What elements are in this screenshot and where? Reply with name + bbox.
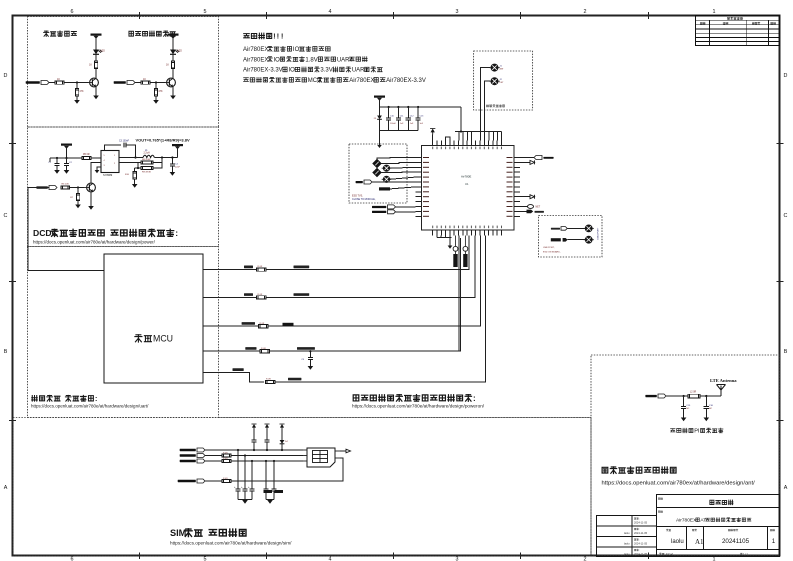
capacitor C2 [66, 158, 68, 163]
wire [76, 96, 78, 100]
svg-text:laolu: laolu [624, 542, 630, 546]
svg-text:SY8089: SY8089 [103, 173, 113, 177]
svg-text:2024-11-05: 2024-11-05 [634, 552, 648, 556]
ground [170, 96, 176, 100]
wire [390, 166, 416, 169]
resistor pull-down [155, 83, 157, 89]
resistor R10 [134, 168, 136, 172]
wire collector [172, 69, 174, 79]
wire [266, 238, 469, 270]
resistor pull-down [76, 83, 78, 89]
svg-text:2: 2 [584, 557, 587, 561]
net label USIM_VDD [180, 448, 205, 452]
svg-text:R 0R: R 0R [260, 323, 265, 325]
wire [379, 141, 381, 145]
svg-text:ESD ON BOARD,: ESD ON BOARD, [543, 250, 561, 253]
resistor R9 [141, 166, 153, 169]
svg-text:2.2uH: 2.2uH [144, 153, 150, 155]
capacitor simc2 [251, 461, 253, 489]
resistor row 1 [257, 268, 267, 271]
svg-text:Air780EX: Air780EX [349, 78, 374, 84]
module left pins [416, 158, 422, 217]
resistor R5 [82, 156, 91, 159]
test point TP1 [489, 64, 499, 71]
power VBUS in [61, 144, 72, 149]
capacitor C3 bootstrap [123, 143, 125, 148]
LED [170, 50, 179, 55]
wire emitter [172, 87, 174, 96]
resistor R [141, 81, 150, 84]
net flag VDD_EXT [534, 156, 554, 160]
net flag USB_DM [551, 228, 560, 230]
svg-text:!: ! [273, 34, 275, 41]
net label NET_LED [26, 81, 49, 85]
svg-text:laolu: laolu [624, 531, 630, 535]
text DCDC guide [33, 228, 178, 238]
net label RF_ANT [645, 394, 666, 398]
wire [64, 82, 88, 84]
wire [381, 162, 415, 163]
resistor R6 [61, 186, 70, 189]
wire [377, 158, 416, 160]
net flag USB_DP [551, 238, 561, 241]
test point TP2 [489, 78, 499, 85]
subcircuit: running status title [129, 31, 175, 36]
text detect label [486, 105, 504, 108]
capacitor C12 [407, 107, 409, 118]
ground [64, 170, 70, 174]
svg-text:laolu: laolu [671, 539, 684, 545]
svg-text:1K: 1K [57, 78, 60, 81]
svg-text:LED: LED [100, 51, 105, 53]
text date [728, 529, 738, 531]
transistor Q [163, 78, 175, 87]
svg-text:1 / 1: 1 / 1 [743, 552, 749, 556]
esd sim 1 [273, 461, 275, 489]
capacitor C4 out [171, 158, 173, 164]
net label USIM1 [372, 205, 396, 209]
power arrow [251, 424, 256, 430]
resistor collector [171, 61, 174, 69]
wire emitter [95, 87, 97, 96]
svg-text:A: A [4, 485, 8, 491]
capacitor C16 [705, 396, 707, 406]
wire uart row 2 [203, 296, 257, 298]
wire base [78, 187, 84, 189]
resistor row5 [266, 380, 276, 383]
text net M_RING [242, 322, 255, 325]
wire vbat feed [460, 107, 462, 132]
svg-text:1K: 1K [89, 64, 92, 67]
ground [681, 418, 687, 422]
wire top bus [455, 131, 501, 133]
revision table [696, 16, 780, 46]
svg-text:R9 49.9K: R9 49.9K [142, 172, 152, 174]
text net M_RX [244, 293, 253, 296]
svg-text:CLOSE TO MODULE,: CLOSE TO MODULE, [352, 198, 376, 201]
transistor Q [86, 78, 98, 87]
svg-text:NET: NET [536, 207, 541, 209]
svg-text:1K: 1K [166, 64, 169, 67]
ground [308, 366, 314, 370]
wire collector [95, 69, 97, 79]
svg-text:LED: LED [177, 51, 182, 53]
resistor R [55, 81, 64, 84]
wire detect 1 [485, 81, 491, 140]
svg-text:D: D [4, 73, 8, 79]
wire [231, 458, 343, 481]
text rev header [727, 17, 742, 20]
net label PWREN [36, 186, 57, 190]
text uart guide [32, 395, 98, 402]
resistor row 3 [259, 325, 269, 328]
wire [49, 158, 51, 162]
text poweron guide [353, 394, 475, 403]
ground [75, 205, 81, 209]
svg-text:C: C [784, 213, 788, 219]
wire riser row2 [474, 236, 476, 298]
wire [700, 395, 721, 397]
text net MAIN_RX [294, 266, 310, 269]
ground [95, 170, 100, 173]
antenna detect box [474, 51, 533, 110]
svg-text:20241105: 20241105 [722, 538, 750, 545]
resistor row 4 [260, 350, 270, 353]
svg-text:1.8V: 1.8V [305, 57, 317, 63]
wire gnd pin [97, 167, 101, 170]
net label [356, 180, 372, 184]
svg-text:https://docs.openluat.com/air7: https://docs.openluat.com/air780ex/at/ha… [602, 481, 756, 487]
svg-text:Air780EX: Air780EX [676, 518, 697, 524]
wire riser row3 [479, 236, 481, 327]
wire input rail [50, 157, 82, 159]
svg-text:AT: AT [700, 518, 706, 524]
text file row [659, 552, 673, 556]
wire [238, 499, 252, 501]
svg-text::: : [473, 394, 476, 403]
wire [153, 158, 162, 163]
svg-text:1: 1 [713, 557, 716, 561]
svg-text:R5 0R: R5 0R [83, 154, 90, 156]
svg-text:1: 1 [713, 9, 716, 15]
text MCU label [135, 334, 173, 344]
svg-text:https://docs.openluat.com/air7: https://docs.openluat.com/air780e/at/har… [31, 404, 149, 409]
svg-text:47K: 47K [79, 90, 84, 93]
wire detect 2 [480, 68, 490, 141]
wire [520, 196, 530, 198]
wire [568, 227, 586, 229]
TVS D4 [281, 429, 283, 440]
net label USIM2 [372, 210, 396, 214]
wire [205, 449, 303, 451]
svg-text:USB1 PORT: USB1 PORT [598, 227, 600, 240]
svg-text:A: A [784, 485, 788, 491]
title text [0, 0, 1, 1]
svg-text:Air780EX: Air780EX [243, 47, 268, 53]
wire SW [119, 157, 143, 159]
ground [74, 100, 80, 104]
resistor row 2 [257, 296, 267, 299]
wire [77, 201, 79, 205]
svg-text:USB PORT,: USB PORT, [543, 247, 555, 249]
svg-text:5: 5 [204, 557, 207, 561]
svg-text:D: D [784, 73, 788, 79]
wire [379, 131, 381, 142]
svg-text:R 0R: R 0R [261, 348, 266, 350]
wire [135, 167, 138, 169]
svg-text:MCU: MCU [153, 334, 173, 344]
svg-text:NC: NC [686, 408, 690, 410]
title block [597, 495, 780, 557]
text sim cap labels [264, 490, 273, 493]
wire [275, 238, 485, 382]
text net M_DTR [245, 347, 256, 350]
wire [49, 82, 55, 84]
svg-text:R 0R: R 0R [266, 379, 271, 381]
svg-text:3: 3 [456, 557, 459, 561]
capacitor simc1 [244, 456, 246, 489]
svg-text:L2 0R: L2 0R [690, 392, 696, 394]
test point U4 [584, 236, 594, 243]
power arrow [264, 424, 269, 430]
power VBAT [91, 34, 102, 39]
power VBAT [168, 34, 179, 39]
svg-text:IO: IO [273, 57, 280, 63]
capacitor C9 [309, 351, 311, 357]
capacitor C11 [397, 107, 399, 118]
wire [266, 238, 475, 297]
wire [126, 145, 136, 158]
esd diode D2 [373, 159, 381, 167]
svg-text:5: 5 [204, 9, 207, 15]
text sheet title [676, 518, 751, 524]
module right pins [514, 158, 520, 217]
svg-text:6: 6 [71, 557, 74, 561]
ground [448, 246, 453, 249]
wire [205, 480, 222, 482]
svg-text:R 0R: R 0R [223, 478, 228, 480]
dcdc IC U2 [98, 151, 123, 178]
wire [520, 157, 534, 159]
no-connect NET [528, 205, 534, 209]
ground [267, 500, 273, 504]
wire [135, 82, 141, 84]
ground [54, 170, 60, 174]
text note line3 [243, 57, 367, 64]
svg-text:R 0R: R 0R [223, 458, 228, 460]
net blob MAIN_RI [283, 323, 294, 326]
ground arrow [377, 141, 381, 148]
wire vbat rail [380, 106, 462, 108]
inductor L2 [688, 394, 700, 398]
capacitor C10 [388, 107, 390, 118]
wire [231, 460, 303, 462]
svg-text:C3 100nF: C3 100nF [119, 141, 130, 143]
text company [710, 500, 733, 505]
svg-text:https://docs.openluat.com/air7: https://docs.openluat.com/air780e/at/har… [33, 240, 156, 245]
capacitor sim 254 [253, 429, 255, 440]
wire riser row5 [484, 236, 486, 383]
antenna symbol [717, 385, 726, 397]
svg-text:R6 10K: R6 10K [62, 184, 70, 186]
svg-text:R 0R: R 0R [223, 452, 228, 454]
usb box [539, 216, 603, 258]
resistor sim 2 [222, 460, 231, 463]
ground [132, 184, 138, 188]
capacitor C13 [417, 107, 419, 118]
power arrow VDD [430, 129, 435, 135]
svg-text:6: 6 [71, 9, 74, 15]
wire [390, 177, 416, 179]
ground [153, 100, 159, 104]
svg-text:IO: IO [288, 68, 295, 74]
svg-text:B: B [4, 349, 8, 355]
text author [666, 529, 671, 531]
wire to MCU [28, 188, 116, 271]
component K1 [453, 236, 458, 268]
svg-text:22uF: 22uF [175, 166, 181, 168]
svg-text:laolu: laolu [624, 552, 630, 556]
capacitor simc0 [237, 450, 239, 489]
svg-text:2024-11-05: 2024-11-05 [634, 531, 648, 535]
svg-text:1: 1 [772, 538, 776, 545]
svg-text:Air780E: Air780E [461, 175, 471, 179]
svg-text:NC: NC [709, 408, 713, 410]
esd diode D3 [373, 168, 381, 176]
ground [704, 418, 710, 422]
wire [520, 161, 530, 163]
svg-text:R8 200K: R8 200K [142, 159, 151, 161]
net label dark [379, 187, 390, 190]
wire [268, 238, 480, 326]
wire uart row 4 [203, 350, 260, 352]
wire emitter [90, 192, 92, 206]
power VBAT out [172, 144, 183, 149]
arrow out [530, 195, 535, 199]
wire [150, 82, 165, 84]
ground [170, 172, 176, 176]
wire sim gnd [340, 450, 346, 452]
ground [242, 500, 248, 504]
arrow [346, 449, 351, 453]
wire [520, 206, 528, 208]
module top pins [433, 141, 502, 146]
text page [770, 529, 774, 531]
text net MAIN_DTR [297, 347, 315, 350]
svg-text::: : [175, 228, 178, 238]
svg-text:47K: 47K [158, 90, 163, 93]
svg-text:3.3V: 3.3V [320, 68, 332, 74]
module bottom pins [433, 230, 502, 236]
svg-text:2: 2 [584, 9, 587, 15]
wire [568, 239, 586, 241]
resistor R8 [141, 161, 153, 164]
test point U3 [584, 225, 594, 232]
wire [666, 395, 688, 397]
net label GPIO_1 [114, 81, 135, 85]
resistor sim 1 [222, 454, 231, 457]
svg-text:U1: U1 [465, 182, 469, 186]
wire [172, 41, 174, 50]
svg-text:2024-11-05: 2024-11-05 [634, 521, 648, 525]
transistor Q3 [83, 183, 95, 192]
svg-text:LTE Antenna: LTE Antenna [710, 378, 737, 383]
net label USIM_RST [180, 454, 205, 458]
wire [134, 179, 136, 184]
resistor sim data [222, 480, 231, 483]
svg-text:PI: PI [694, 429, 700, 435]
svg-text:Air780EX: Air780EX [243, 57, 268, 63]
wire [153, 163, 162, 169]
svg-text:R 0R: R 0R [258, 266, 263, 268]
net label USIM_DATA [178, 479, 205, 483]
esd sim 0 [265, 461, 267, 489]
power VBAT [374, 96, 385, 101]
svg-text:A1: A1 [695, 538, 704, 546]
svg-text:https://docs.openluat.com/air7: https://docs.openluat.com/air780e/at/har… [352, 404, 485, 409]
text size [692, 529, 696, 531]
svg-text:3: 3 [456, 9, 459, 15]
svg-text:! !: ! ! [277, 34, 284, 41]
esd box [349, 144, 407, 203]
module U1 body [422, 146, 515, 231]
text net M_TX [244, 266, 253, 269]
wire uart row 1 [203, 269, 257, 271]
capacitor sim 267 [266, 429, 268, 440]
text rev cols [700, 22, 705, 24]
resistor collector [94, 61, 97, 69]
capacitor C1 [56, 158, 58, 163]
subcircuit: network indicator title [44, 31, 77, 36]
wire [70, 187, 85, 189]
TVS D1 [379, 107, 381, 116]
svg-text:IO: IO [293, 47, 300, 53]
wire [91, 157, 101, 159]
svg-text:1K: 1K [143, 78, 146, 81]
svg-text:2024-11-05: 2024-11-05 [634, 542, 648, 546]
resistor R7 pulldown [77, 188, 79, 194]
text note title [244, 33, 284, 40]
svg-text:C: C [4, 213, 8, 219]
wire [95, 41, 97, 50]
wire [205, 460, 222, 462]
text note line5 [244, 77, 426, 84]
text net RSTKEY [288, 378, 301, 381]
net arrow PWRKEY [527, 210, 534, 214]
wire out [154, 157, 177, 159]
wire [381, 171, 415, 173]
wire uart row 3 [203, 325, 259, 327]
svg-text:VOUT=0.765*(1+R8/R9)=3.8V: VOUT=0.765*(1+R8/R9)=3.8V [136, 138, 190, 143]
wire [520, 210, 527, 212]
wire [270, 238, 461, 351]
svg-text:B: B [784, 349, 788, 355]
wire gnd rail [380, 130, 419, 132]
title text [0, 0, 1, 1]
svg-text:R 0R: R 0R [258, 294, 263, 296]
wire FB [119, 162, 138, 164]
wire gnd bus [437, 237, 452, 239]
capacitor C15 [683, 396, 685, 406]
text pi match [671, 428, 723, 434]
wire [446, 137, 450, 141]
bead FB2 [382, 176, 392, 182]
svg-text:SIM: SIM [170, 528, 187, 538]
wire riser row1 [468, 236, 470, 270]
wire bootstrap [105, 145, 122, 151]
sim connector J4 [303, 448, 340, 467]
wire [155, 96, 157, 100]
